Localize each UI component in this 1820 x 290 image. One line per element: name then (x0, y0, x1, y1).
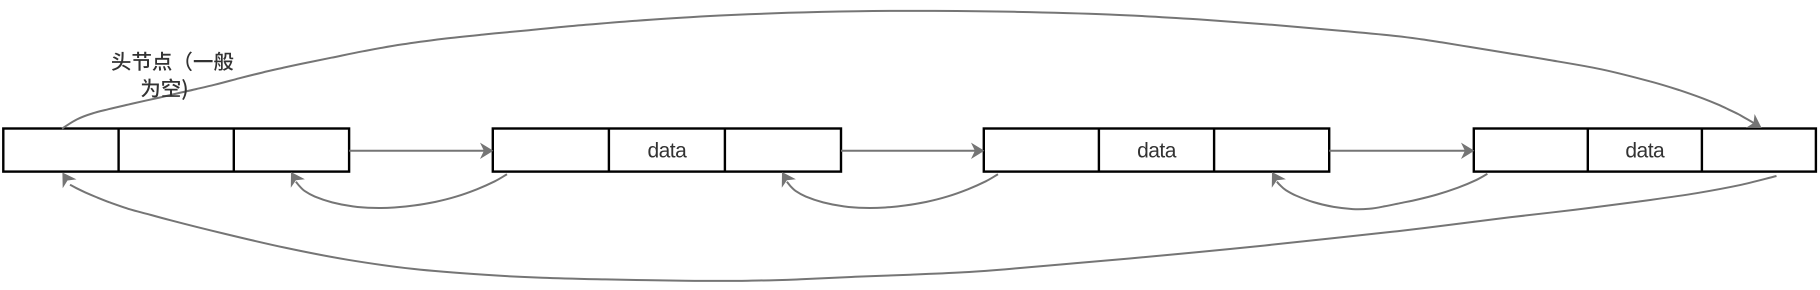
node 1 box (493, 129, 841, 172)
prev pointer arc: node 2 to node 1 (782, 172, 998, 208)
node 3 box (1474, 129, 1816, 172)
head node box (prev/data/next cells, empty) (3, 129, 349, 172)
node 2 box (984, 129, 1329, 172)
prev pointer arc: node 1 to head node (291, 172, 507, 208)
label: 头节点（一般为空) annotation above head node (112, 52, 233, 101)
next pointer arrow: head node to node 1 (349, 143, 493, 159)
data value label of node 3 (1625, 140, 1665, 163)
bottom arc: tail node next wraps around to head node (62, 173, 1776, 281)
next pointer arrow: node 2 to node 3 (1329, 143, 1474, 159)
svg-text:data: data (647, 140, 687, 163)
data value label of node 1 (647, 140, 687, 163)
top arc: head node prev wraps around to tail node (62, 11, 1762, 129)
data value label of node 2 (1137, 140, 1177, 163)
prev pointer arc: node 3 to node 2 (1272, 172, 1488, 209)
svg-text:data: data (1137, 140, 1177, 163)
svg-text:data: data (1625, 140, 1665, 163)
next pointer arrow: node 1 to node 2 (841, 143, 984, 159)
